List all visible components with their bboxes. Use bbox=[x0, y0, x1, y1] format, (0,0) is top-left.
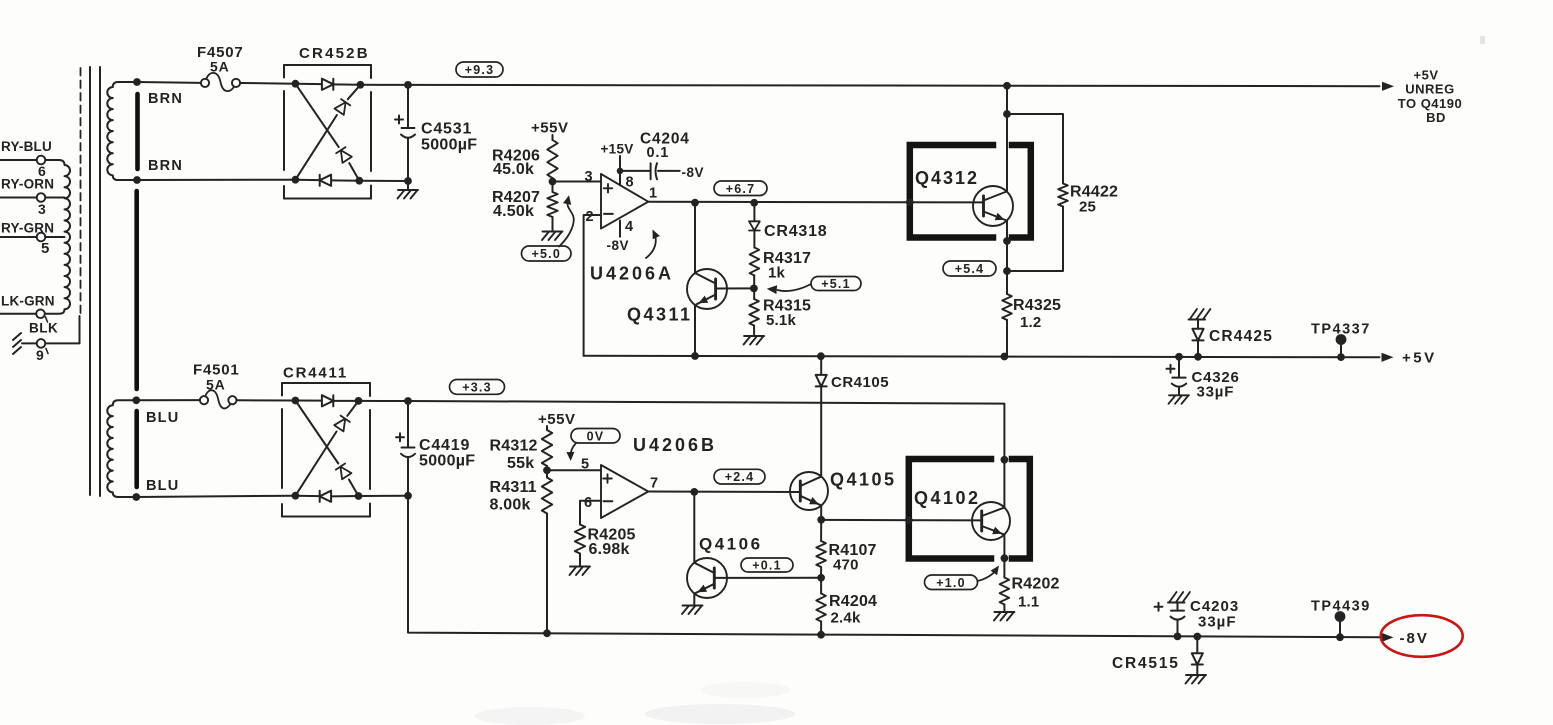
svg-text:3: 3 bbox=[585, 169, 593, 185]
label RY-ORN bbox=[1, 177, 54, 192]
wire R4315 to ground bbox=[753, 326, 755, 335]
label U4206A bbox=[590, 264, 674, 284]
wire fuse to bridge bbox=[240, 82, 295, 85]
label R4207 value bbox=[493, 203, 534, 220]
svg-text:TP4337: TP4337 bbox=[1311, 322, 1371, 338]
junction emitter/bracket bbox=[1003, 237, 1011, 245]
label C4203 value bbox=[1198, 614, 1237, 631]
arrow +5V bbox=[1382, 353, 1394, 362]
label -8V (pin4) bbox=[607, 238, 630, 253]
wire BLU bottom to bridge bbox=[136, 496, 295, 497]
label CR4515 bbox=[1112, 655, 1180, 672]
label R4107 bbox=[829, 542, 877, 559]
label CR4425 bbox=[1209, 328, 1273, 345]
junction C4419 top bbox=[404, 397, 412, 405]
test point TP4337 bbox=[1336, 334, 1347, 357]
label +55V (R4206) bbox=[531, 120, 568, 137]
label F4507 rating 5A bbox=[210, 59, 230, 75]
label pin 5 bbox=[41, 240, 49, 257]
label R4311 value bbox=[490, 497, 531, 514]
label pin 2 bbox=[586, 209, 594, 225]
wire pin 8 power lead bbox=[619, 171, 621, 185]
diode CR4318 bbox=[749, 203, 760, 231]
svg-text:R4312: R4312 bbox=[490, 438, 538, 455]
junction CR4425 on +5V rail bbox=[1194, 353, 1202, 361]
svg-text:R4325: R4325 bbox=[1013, 297, 1061, 314]
junction BRN bottom bbox=[133, 176, 141, 184]
label TP4337 bbox=[1311, 322, 1371, 338]
svg-text:U4206A: U4206A bbox=[590, 264, 674, 284]
transformer core line 2 bbox=[99, 67, 101, 496]
label Q4106 bbox=[699, 535, 763, 554]
label C4203 bbox=[1190, 598, 1239, 615]
resistor R4204 bbox=[816, 578, 826, 622]
junction R4311 on -8V rail bbox=[543, 629, 551, 637]
svg-text:3: 3 bbox=[38, 201, 46, 217]
label pin 1 bbox=[649, 186, 657, 202]
svg-text:+3.3: +3.3 bbox=[462, 380, 491, 394]
bridge rectifier CR4411 bbox=[282, 383, 370, 517]
svg-text:CR4515: CR4515 bbox=[1112, 655, 1180, 672]
svg-text:0V: 0V bbox=[587, 429, 605, 443]
label +5V unreg line3 bbox=[1398, 96, 1462, 111]
heatsink bracket left (Q4102) bbox=[909, 459, 991, 559]
label R4204 value bbox=[831, 610, 861, 627]
label F4501 bbox=[193, 362, 240, 379]
label pin 3 bbox=[38, 201, 46, 217]
label CR4105 bbox=[831, 374, 889, 391]
diode CR4515 bbox=[1192, 637, 1203, 674]
wire Q4106 emitter bbox=[693, 593, 695, 604]
svg-text:CR4105: CR4105 bbox=[831, 374, 889, 391]
junction TP4337 on +5V rail bbox=[1337, 353, 1345, 361]
junction CR4318 top bbox=[750, 199, 758, 207]
svg-text:UNREG: UNREG bbox=[1405, 82, 1454, 97]
wire pin3 tap bbox=[45, 197, 64, 199]
node +5.1 bubble bbox=[811, 277, 861, 292]
diode CR4105 bbox=[816, 357, 827, 386]
label R4312 value bbox=[507, 455, 534, 472]
wire divider to pin5 bbox=[547, 469, 601, 471]
svg-text:6: 6 bbox=[584, 495, 592, 511]
label R4205 bbox=[588, 527, 636, 544]
label R4202 value bbox=[1018, 594, 1039, 611]
op-amp U4206A bbox=[601, 174, 648, 229]
svg-text:1.1: 1.1 bbox=[1018, 594, 1039, 611]
svg-text:+5.4: +5.4 bbox=[955, 262, 984, 276]
ground under R4315 bbox=[744, 336, 765, 345]
transformer shield (dashed) bbox=[80, 68, 82, 316]
junction Q4105 emitter node bbox=[817, 516, 825, 524]
wire U4206B output to Q4106 collector bbox=[693, 492, 695, 563]
wire +55V lead bbox=[552, 135, 554, 140]
junction C4531 top bbox=[404, 81, 412, 89]
label CR4318 bbox=[764, 223, 828, 240]
junction U4206B output node bbox=[690, 488, 698, 496]
label pin 8 bbox=[626, 175, 634, 191]
wire R4204 to -8V rail bbox=[820, 622, 822, 635]
junction R4312/R4311 bbox=[543, 466, 551, 474]
heatsink bracket right (Q4102) bbox=[1012, 459, 1030, 559]
svg-text:+5V: +5V bbox=[1414, 68, 1439, 83]
label +55V (R4312) bbox=[538, 411, 575, 428]
ground under R4207 bbox=[542, 232, 563, 241]
svg-text:5: 5 bbox=[581, 457, 589, 473]
svg-text:33µF: 33µF bbox=[1198, 614, 1237, 631]
svg-text:R4202: R4202 bbox=[1012, 576, 1060, 593]
label pin 6 bbox=[38, 163, 46, 179]
svg-text:2.4k: 2.4k bbox=[831, 610, 861, 627]
wire U4206A output (+6.7 net) bbox=[648, 201, 981, 204]
test point TP4439 bbox=[1335, 611, 1346, 637]
capacitor C4326 bbox=[1172, 357, 1186, 395]
wire Q4105 collector bbox=[820, 387, 822, 477]
plus sign C4203 bbox=[1155, 603, 1163, 611]
svg-text:CR4318: CR4318 bbox=[764, 223, 828, 240]
node +9.3 bubble bbox=[456, 62, 503, 77]
wire -8V rail bbox=[408, 496, 1380, 638]
wire bridge bottom out (lower) bbox=[359, 495, 409, 497]
op-amp U4206B bbox=[601, 465, 648, 518]
label R4312 bbox=[490, 438, 538, 455]
wire R4205 to ground bbox=[579, 554, 581, 566]
junction C4326 on +5V rail bbox=[1175, 353, 1183, 361]
node +0.1 bubble bbox=[741, 558, 793, 573]
transistor Q4102 bbox=[972, 502, 1010, 540]
label BLU bottom bbox=[146, 478, 179, 494]
wire Q4105 emitter to Q4102 base bbox=[821, 519, 982, 522]
junction Q4102 base on bracket bbox=[905, 516, 913, 524]
label -8V output bbox=[1400, 630, 1429, 647]
transformer core line 1 bbox=[89, 67, 91, 495]
svg-text:Q4105: Q4105 bbox=[830, 470, 897, 490]
svg-text:-8V: -8V bbox=[607, 238, 630, 253]
winding polarity bar (BRN) bbox=[135, 94, 140, 169]
wire Q4312 emitter bbox=[1006, 221, 1008, 295]
transistor Q4105 bbox=[790, 472, 828, 510]
label C4531 bbox=[421, 121, 472, 138]
label R4206 bbox=[492, 148, 540, 165]
label BRN top bbox=[148, 91, 183, 107]
node +2.4 bubble bbox=[714, 469, 765, 484]
scan smudge 4 bbox=[1480, 36, 1485, 44]
node +3.3 bubble bbox=[450, 380, 505, 395]
wire pin 4 power lead bbox=[619, 221, 621, 237]
label R4325 bbox=[1013, 297, 1061, 314]
capacitor C4419 bbox=[401, 401, 415, 496]
label pin 4 bbox=[625, 219, 633, 235]
junction -8V corner bbox=[404, 492, 412, 500]
connector pin 3 terminal bbox=[37, 193, 46, 202]
ground at C4531 bbox=[398, 181, 419, 199]
svg-text:Q4311: Q4311 bbox=[627, 305, 693, 325]
svg-text:4.50k: 4.50k bbox=[493, 203, 534, 220]
junction Q4102 emitter node bbox=[1001, 554, 1009, 562]
op-amp U4206B plus sign bbox=[603, 474, 612, 483]
svg-text:BLK: BLK bbox=[29, 321, 58, 336]
scan smudge 1 bbox=[475, 707, 585, 725]
label C4419 value bbox=[419, 453, 475, 470]
wire pin6 to R4205 bbox=[580, 501, 601, 525]
junction TP4439 on -8V rail bbox=[1336, 633, 1344, 641]
label R4205 value bbox=[589, 541, 630, 558]
wire Q4105 emitter bbox=[820, 505, 822, 520]
op-amp U4206A plus sign bbox=[604, 184, 613, 193]
connector terminal LK-GRN bbox=[36, 310, 45, 319]
transformer secondary winding BLU bbox=[107, 400, 137, 497]
label R4315 value bbox=[766, 312, 796, 329]
wire +5V rail bbox=[584, 356, 1380, 358]
capacitor C4531 bbox=[401, 85, 415, 181]
svg-text:+2.4: +2.4 bbox=[725, 470, 754, 484]
wire R4311 to -8V rail bbox=[546, 514, 548, 634]
wire BRN top to fuse bbox=[137, 81, 201, 84]
label +5V bbox=[1402, 350, 1437, 367]
svg-text:470: 470 bbox=[833, 557, 859, 574]
svg-text:BLU: BLU bbox=[146, 478, 179, 494]
label R4317 value bbox=[768, 265, 786, 282]
svg-text:+6.7: +6.7 bbox=[726, 182, 755, 196]
svg-text:25: 25 bbox=[1079, 199, 1096, 216]
svg-text:RY-BLU: RY-BLU bbox=[1, 139, 52, 154]
label F4501 rating 5A bbox=[206, 377, 226, 393]
arrow +1.0 callout bbox=[978, 566, 1000, 582]
label LK-GRN bbox=[1, 294, 55, 309]
label pin 6 bbox=[584, 495, 592, 511]
svg-text:5A: 5A bbox=[206, 377, 226, 393]
wire BRN bottom to bridge bbox=[137, 179, 295, 181]
svg-text:C4531: C4531 bbox=[421, 121, 472, 138]
diode CR4425 bbox=[1192, 320, 1203, 357]
transistor Q4312 bbox=[973, 186, 1013, 226]
svg-text:0.1: 0.1 bbox=[647, 145, 670, 161]
svg-text:BRN: BRN bbox=[148, 158, 183, 174]
svg-text:33µF: 33µF bbox=[1197, 384, 1235, 401]
svg-text:8: 8 bbox=[626, 175, 634, 191]
label pin 5 bbox=[581, 457, 589, 473]
fuse F4501 bbox=[200, 390, 237, 408]
wire +15V lead bbox=[619, 156, 621, 168]
transistor Q4311 bbox=[687, 203, 754, 356]
arrow U4206A pointer bbox=[646, 230, 660, 259]
junction base wire on bracket bbox=[906, 198, 914, 206]
junction BLU top bbox=[132, 396, 140, 404]
wire bridge to +3.3 bbox=[359, 400, 409, 402]
svg-text:TO Q4190: TO Q4190 bbox=[1398, 96, 1462, 111]
node +1.0 bubble bbox=[925, 575, 978, 590]
op-amp U4206A minus sign bbox=[604, 213, 613, 215]
wire U4206A feedback (pin2) bbox=[584, 215, 601, 356]
svg-text:-8V: -8V bbox=[682, 165, 705, 180]
label R4107 value bbox=[833, 557, 859, 574]
junction +15V node bbox=[617, 168, 624, 175]
label R4311 bbox=[490, 479, 537, 496]
svg-text:55k: 55k bbox=[507, 455, 534, 472]
ground above C4203 bbox=[1168, 592, 1190, 603]
svg-text:5.1k: 5.1k bbox=[766, 312, 796, 329]
junction C4203 on -8V rail bbox=[1174, 633, 1182, 641]
arrow +5.0 callout bbox=[559, 195, 574, 246]
transformer T4501 primary winding bbox=[45, 160, 70, 314]
svg-text:Q4106: Q4106 bbox=[699, 535, 763, 554]
junction C4531 bottom bbox=[404, 177, 412, 185]
label +5V unreg line1 bbox=[1414, 68, 1439, 83]
wire +55V lead (lower) bbox=[546, 426, 548, 430]
resistor R4311 bbox=[542, 466, 552, 514]
resistor R4315 bbox=[749, 288, 759, 325]
label R4207 bbox=[492, 189, 540, 206]
svg-text:-8V: -8V bbox=[1400, 630, 1429, 647]
arrow 0V callout bbox=[566, 443, 576, 461]
label pin 9 bbox=[36, 347, 44, 363]
svg-text:7: 7 bbox=[650, 476, 658, 492]
junction BLU bottom bbox=[132, 493, 140, 501]
svg-text:+5.1: +5.1 bbox=[821, 277, 850, 291]
wire R4422 top branch bbox=[1007, 114, 1063, 184]
node +6.7 bubble bbox=[714, 181, 767, 196]
fuse F4507 bbox=[201, 73, 240, 91]
svg-text:6.98k: 6.98k bbox=[589, 541, 630, 558]
tick at LK-GRN pin bbox=[46, 317, 48, 322]
label R4202 bbox=[1012, 576, 1060, 593]
wire R4107 to junction bbox=[820, 567, 822, 578]
label RY-BLU bbox=[1, 139, 52, 154]
label R4206 value bbox=[493, 161, 534, 178]
wire R4207 leads bbox=[552, 178, 554, 231]
heatsink bracket right (Q4312) bbox=[1012, 145, 1031, 238]
svg-text:RY-ORN: RY-ORN bbox=[1, 177, 54, 192]
red circle annotation bbox=[1381, 615, 1463, 657]
ground under Q4106 bbox=[682, 606, 703, 615]
label C4326 bbox=[1192, 369, 1240, 386]
label C4204 value bbox=[647, 145, 670, 161]
wire U4206B output bbox=[648, 491, 800, 494]
svg-text:+1.0: +1.0 bbox=[936, 576, 965, 590]
wire +5V unreg rail bbox=[408, 85, 1380, 86]
ground under R4202 bbox=[994, 612, 1015, 621]
op-amp U4206B minus sign bbox=[604, 500, 613, 502]
svg-text:RY-GRN: RY-GRN bbox=[1, 221, 54, 236]
wire RY-BLU lead-in bbox=[0, 159, 37, 161]
resistor R4206 bbox=[547, 140, 557, 178]
label R4325 value bbox=[1020, 314, 1041, 331]
transformer secondary winding BRN bbox=[107, 82, 137, 180]
junction CR4105 on +5V rail bbox=[817, 352, 825, 360]
label pin 7 bbox=[650, 476, 658, 492]
junction R4204 on -8V rail bbox=[817, 631, 825, 639]
ground under C4326 bbox=[1169, 395, 1190, 404]
label RY-GRN bbox=[1, 221, 54, 236]
wire bridge to +9.3 rail bbox=[360, 84, 408, 86]
wire C4204 to -8V bbox=[658, 170, 680, 172]
svg-text:Q4312: Q4312 bbox=[915, 168, 979, 188]
wire BLK to pin 9 bbox=[22, 342, 37, 344]
wire RY-GRN lead-in bbox=[0, 236, 37, 238]
ground under R4205 bbox=[570, 567, 591, 576]
bridge rectifier CR452B bbox=[284, 65, 371, 199]
arrow +5.1 callout bbox=[767, 284, 811, 294]
wire divider to pin3 bbox=[553, 181, 602, 183]
ground above CR4425 bbox=[1189, 309, 1211, 320]
svg-text:C4203: C4203 bbox=[1190, 598, 1239, 615]
svg-text:C4419: C4419 bbox=[419, 437, 470, 454]
label -8V (C4204) bbox=[682, 165, 705, 180]
label Q4311 bbox=[627, 305, 693, 325]
svg-text:LK-GRN: LK-GRN bbox=[1, 294, 55, 309]
junction Q4311 base node (+5.1) bbox=[750, 285, 758, 293]
transistor Q4106 bbox=[687, 558, 821, 598]
label Q4102 bbox=[914, 488, 981, 508]
wire +3.3 net bbox=[408, 401, 1004, 460]
node +5.4 bubble bbox=[943, 261, 996, 276]
label +5V unreg line2 bbox=[1405, 82, 1454, 97]
svg-text:2: 2 bbox=[586, 209, 594, 225]
wire Q4102 collector bbox=[1003, 460, 1005, 508]
junction Q4106 base node bbox=[817, 574, 825, 582]
plus sign C4419 bbox=[396, 433, 404, 441]
svg-text:45.0k: 45.0k bbox=[493, 161, 534, 178]
svg-text:1.2: 1.2 bbox=[1020, 314, 1041, 331]
resistor R4207 bbox=[547, 192, 557, 217]
tick at BLK pin bbox=[46, 349, 48, 354]
label C4419 bbox=[419, 437, 470, 454]
resistor R4422 bbox=[1058, 184, 1068, 207]
svg-text:+5.0: +5.0 bbox=[532, 247, 561, 261]
scan smudge 3 bbox=[700, 682, 790, 698]
wire R4202 to ground bbox=[1003, 605, 1005, 611]
wire LK-GRN lead-in bbox=[0, 313, 36, 315]
capacitor C4204 bbox=[651, 163, 657, 179]
label BLK bbox=[29, 321, 58, 336]
svg-text:1k: 1k bbox=[768, 265, 786, 282]
node +5.0 bubble bbox=[522, 246, 572, 261]
svg-text:4: 4 bbox=[625, 219, 633, 235]
resistor R4325 bbox=[1002, 294, 1012, 320]
connector pin 5 terminal bbox=[37, 233, 46, 242]
label C4204 bbox=[640, 131, 690, 148]
label CR452B bbox=[299, 45, 370, 62]
label TP4439 bbox=[1311, 599, 1371, 615]
svg-text:+15V: +15V bbox=[601, 142, 634, 157]
label Q4312 bbox=[915, 168, 979, 188]
connector pin 6 terminal bbox=[37, 156, 46, 165]
wire Q4312 collector bbox=[1006, 86, 1008, 192]
svg-text:R4311: R4311 bbox=[490, 479, 537, 496]
wire Q4102 emitter bbox=[1003, 534, 1005, 558]
label BRN bottom bbox=[148, 158, 183, 174]
svg-text:+55V: +55V bbox=[531, 120, 568, 137]
junction BRN top bbox=[133, 78, 141, 86]
label C4531 value bbox=[421, 137, 477, 154]
wire BLU top to fuse bbox=[136, 399, 199, 401]
wire BLK to shield bbox=[45, 316, 79, 343]
svg-text:Q4102: Q4102 bbox=[914, 488, 981, 508]
svg-text:+5V: +5V bbox=[1402, 350, 1437, 367]
junction Q4312 collector rail bbox=[1003, 82, 1011, 90]
resistor R4107 bbox=[816, 520, 826, 567]
svg-text:CR4425: CR4425 bbox=[1209, 328, 1273, 345]
wire bridge bottom out bbox=[359, 180, 408, 182]
chassis ground at BLK bbox=[13, 333, 21, 354]
wire RY-ORN lead-in bbox=[0, 197, 37, 199]
label R4422 bbox=[1070, 184, 1118, 201]
label +15V bbox=[601, 142, 634, 157]
label F4507 bbox=[197, 44, 244, 61]
junction R4422 top branch bbox=[1003, 110, 1011, 118]
svg-text:+0.1: +0.1 bbox=[752, 559, 781, 573]
scan smudge 2 bbox=[645, 704, 795, 724]
svg-text:U4206B: U4206B bbox=[633, 435, 717, 455]
